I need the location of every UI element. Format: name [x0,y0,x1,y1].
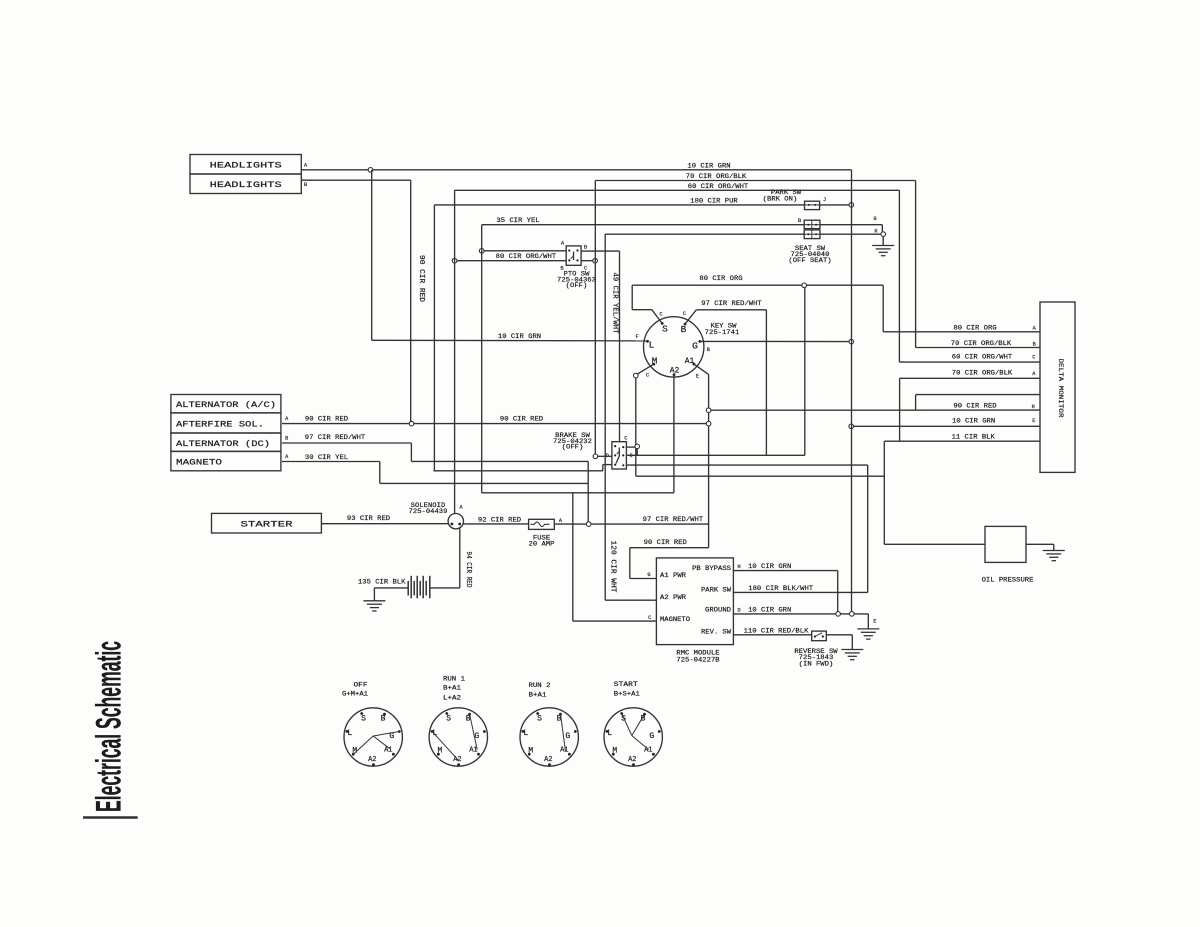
svg-text:C: C [683,311,686,317]
wire rmc A1 jog [629,548,631,579]
wire seat ground stem [882,236,884,245]
svg-text:(OFF): (OFF) [562,444,584,451]
wire seat K line west [605,233,804,235]
svg-text:97 CIR RED/WHT: 97 CIR RED/WHT [643,516,704,523]
wire A2 stem [673,375,675,382]
wire vert blank down [915,395,917,410]
svg-text:110 CIR RED/BLK: 110 CIR RED/BLK [744,627,809,634]
svg-text:E: E [873,618,876,624]
wire monitor A2 70ORGBLK [900,377,1040,379]
wire vert park up [867,465,869,592]
svg-text:PARK SW: PARK SW [701,587,731,594]
wire vert A2mon down [899,378,901,441]
alternator AC box [171,395,281,413]
wire vert magneto link [572,493,574,621]
svg-text:G: G [873,216,876,222]
wire PB bypass [733,570,837,572]
svg-text:OFF: OFF [354,682,368,689]
wire battery ground stem [373,588,375,601]
svg-text:(OFF): (OFF) [566,282,588,289]
wire PTO C east [581,260,593,262]
svg-text:92 CIR RED: 92 CIR RED [478,517,521,524]
svg-text:B: B [707,347,710,353]
svg-text:HEADLIGHTS: HEADLIGHTS [210,181,282,190]
svg-text:70 CIR ORG/BLK: 70 CIR ORG/BLK [952,370,1013,377]
solenoid circle [448,514,463,529]
wire A1 pin [694,364,709,374]
park switch through wire [805,204,820,206]
svg-text:OIL PRESSURE: OIL PRESSURE [982,577,1034,584]
svg-text:L: L [649,339,655,350]
svg-text:AFTERFIRE SOL.: AFTERFIRE SOL. [176,421,264,430]
delta monitor box [1040,302,1075,472]
svg-text:B+S+A1: B+S+A1 [614,691,640,698]
svg-text:M: M [437,747,442,756]
svg-text:(OFF SEAT): (OFF SEAT) [788,257,831,264]
svg-text:70 CIR ORG/BLK: 70 CIR ORG/BLK [686,173,747,180]
svg-text:RUN 2: RUN 2 [529,682,551,689]
wire 80 ORG/WHT upper [484,250,566,252]
svg-text:180 CIR BLK/WHT: 180 CIR BLK/WHT [748,585,813,592]
ground rmc [857,628,879,630]
PTO switch box [566,246,581,265]
svg-text:93 CIR RED: 93 CIR RED [347,515,390,522]
svg-text:60 CIR ORG/WHT: 60 CIR ORG/WHT [952,353,1013,360]
svg-text:10 CIR GRN: 10 CIR GRN [498,333,541,340]
svg-text:A2: A2 [544,756,552,764]
wire vert 35YEL down [481,225,483,493]
wire 90 CIR RED bus [282,423,706,425]
wire brake bottom east [626,464,867,466]
wire rev sw east [826,634,852,636]
svg-text:80 CIR ORG: 80 CIR ORG [953,324,996,331]
wire vert 80ORG to monitor [882,285,884,332]
svg-text:A1: A1 [685,357,695,366]
svg-text:11 CIR BLK: 11 CIR BLK [952,433,995,440]
svg-text:A2: A2 [670,366,680,375]
node 90RED hl circle [409,421,414,426]
svg-text:10 CIR GRN: 10 CIR GRN [748,606,791,613]
alternator DC box [171,433,281,451]
wire 30YEL mid [380,482,588,484]
wire monitor A [883,331,1040,333]
key position RUN 2 circle [520,708,578,766]
wire vert 60ORGWHT to monitor [898,190,900,362]
node gnd circle 1 [836,612,841,617]
svg-text:G: G [692,341,698,352]
wire 10 CIR GRN top [301,169,851,171]
brake switch lever [618,448,620,457]
node 80 ORG/WHT lower circle [452,258,457,263]
svg-text:MAGNETO: MAGNETO [660,616,690,623]
solenoid pins [451,523,454,526]
node M circle [634,373,639,378]
svg-text:10 CIR GRN: 10 CIR GRN [687,162,730,169]
svg-text:90 CIR RED: 90 CIR RED [305,416,348,423]
svg-text:94 CIR RED: 94 CIR RED [464,552,472,588]
svg-text:B: B [584,244,587,250]
wire vert 97 to fuse [587,461,589,521]
svg-text:L: L [523,729,528,738]
wire park sw to ground bus [820,204,852,206]
wire oil pressure right [1026,543,1054,545]
svg-text:B: B [681,324,687,335]
svg-text:S: S [361,714,366,723]
svg-text:90 CIR RED: 90 CIR RED [953,403,996,410]
svg-text:20 AMP: 20 AMP [529,541,555,548]
svg-text:ALTERNATOR (A/C): ALTERNATOR (A/C) [176,401,276,410]
svg-text:MAGNETO: MAGNETO [176,459,222,468]
key switch circle [644,317,704,377]
node headlight A junction [368,168,373,173]
svg-text:A1: A1 [560,747,568,755]
wire fuse out [554,523,586,525]
svg-text:A1: A1 [644,747,652,755]
wire S pin [652,310,662,324]
node brake topC circle [635,444,640,449]
svg-text:G: G [565,732,570,741]
wire 94 CIR RED vertical [459,528,461,588]
wire seat K line east [820,233,881,235]
svg-text:(IN FWD): (IN FWD) [799,661,834,668]
wire rmc ground stem [867,614,869,629]
wire monitor E [854,425,1041,427]
svg-text:49 CIR YEL/WHT: 49 CIR YEL/WHT [611,273,619,334]
wire ground rmc [733,613,868,615]
wire vert 180PUR down [433,205,435,471]
wire vert M down [635,378,637,476]
svg-text:S: S [537,714,542,723]
svg-text:10 CIR GRN: 10 CIR GRN [748,563,791,570]
svg-text:90 CIR RED: 90 CIR RED [500,416,543,423]
svg-text:ALTERNATOR (DC): ALTERNATOR (DC) [176,440,270,449]
wire brake D line [598,455,612,457]
svg-text:B+A1: B+A1 [529,692,547,699]
wire 90 CIR RED rmc top [630,547,709,549]
wire vert 80ORGcircle down [804,288,806,456]
wire 80 ORG/WHT lower [457,260,566,262]
ground battery [363,600,385,602]
ground oil pressure [1043,550,1065,552]
svg-text:G+M+A1: G+M+A1 [342,691,368,698]
svg-text:C: C [659,312,662,318]
seat switch conn 2 [804,230,820,239]
seat conn1 pins [807,224,809,226]
svg-text:B: B [381,714,386,723]
wire monitor C [899,361,1040,363]
node K circle [881,232,886,237]
wire PTO B east [581,250,619,252]
node J circle [849,203,854,208]
wire 93 CIR RED [321,523,448,525]
svg-text:L: L [607,729,612,738]
svg-text:97 CIR RED/WHT: 97 CIR RED/WHT [701,300,762,307]
wire M3 jog [602,465,604,471]
node PTO C circle [593,258,598,263]
svg-text:START: START [614,681,638,688]
node fuse97 circle [586,522,591,527]
wire 80 CIR ORG [632,284,883,286]
svg-text:A1 PWR: A1 PWR [660,572,686,579]
svg-text:C: C [624,436,627,442]
svg-text:180 CIR PUR: 180 CIR PUR [690,197,738,204]
wire 30 CIR YEL left [282,461,380,463]
headlights box B [190,174,301,194]
oil pressure box [985,526,1026,562]
node brake D circle [593,454,598,459]
svg-text:120 CIR WHT: 120 CIR WHT [609,541,617,593]
wire 97 mid [411,460,588,462]
svg-text:M: M [528,747,533,756]
wire vert 60ORG to solenoid [454,190,456,513]
wire vert A2 down [673,382,675,493]
node 80 ORG/WHT upper circle [479,249,484,254]
ground seat switch [872,245,894,247]
node monitor E circle [849,424,854,429]
key position RUN 1 circle [429,708,487,766]
svg-text:HEADLIGHTS: HEADLIGHTS [210,162,282,171]
svg-text:G: G [649,732,654,741]
svg-text:135 CIR BLK: 135 CIR BLK [358,579,406,586]
brake switch pins [614,445,616,447]
wire monitor B [916,347,1040,349]
seat conn2 through wire [804,233,820,235]
svg-text:A2: A2 [368,756,376,764]
svg-text:A2: A2 [628,756,636,764]
wire vert pb down [837,571,839,612]
brake switch box [612,442,627,469]
wire vert A1 down [708,374,710,547]
seat switch conn 1 [804,220,820,228]
svg-text:E: E [1032,418,1035,424]
wire 92 CIR RED [464,523,529,525]
svg-text:STARTER: STARTER [241,521,293,530]
wire vert 70ORGBLK to monitor [915,181,917,348]
wire 10 CIR GRN mid [372,339,648,342]
svg-text:A2: A2 [453,756,461,764]
wire vert 70ORG to brakeD [594,181,596,455]
svg-text:RUN 1: RUN 1 [443,676,465,683]
wire 60 CIR ORG/WHT top [455,189,900,191]
key position START circle [604,708,662,766]
node 90RED end circle [706,421,711,426]
wire rev sw west [733,634,811,636]
key switch pin dots [661,322,664,325]
svg-text:REV. SW: REV. SW [701,629,731,636]
svg-text:H: H [1032,404,1035,410]
wire vert headlightA down [371,170,373,340]
wire vert 11BLK to oil [883,441,885,544]
svg-text:90 CIR RED: 90 CIR RED [417,255,425,302]
svg-text:B+A1: B+A1 [443,685,461,692]
node G ground circle [849,339,854,344]
RMC module box [656,558,733,645]
svg-text:H: H [738,564,741,570]
svg-text:S: S [446,714,451,723]
wire 35 CIR YEL [482,224,805,226]
node 80 ORG circle [802,283,807,288]
wire vert 97 jog [410,443,412,461]
wire rmc A2 [605,599,656,601]
svg-text:C: C [1032,355,1035,361]
wire G pin east [700,340,849,342]
svg-text:S: S [662,323,668,334]
wire vert ground bus 10GRN [851,170,853,612]
wire vert 49 CIR YEL/WHT [604,234,606,600]
svg-text:97 CIR RED/WHT: 97 CIR RED/WHT [305,434,366,441]
key position OFF circle [344,708,402,766]
wire monitor H [711,409,1040,411]
wire battery right [430,587,459,589]
title underline [83,816,138,819]
svg-text:GROUND: GROUND [705,607,731,614]
svg-text:B: B [304,182,307,188]
wire rmc magneto [573,620,657,622]
svg-text:PB BYPASS: PB BYPASS [692,565,731,572]
svg-text:F: F [635,334,638,340]
seat conn1 through wire [804,224,820,226]
svg-text:(BRK ON): (BRK ON) [763,195,798,202]
node monitor H circle [706,408,711,413]
wire 97 CIR RED/WHT left [282,442,411,444]
park switch box [805,201,820,209]
svg-text:B: B [798,218,801,224]
wire 70 CIR ORG/BLK top [595,180,915,182]
wire M7 A2 link [482,492,674,494]
fuse box [529,519,555,529]
svg-text:RMC MODULE: RMC MODULE [676,650,719,657]
svg-text:D: D [738,607,741,613]
wire battery left [374,587,408,589]
afterfire sol box [171,413,281,433]
svg-text:80 CIR ORG/WHT: 80 CIR ORG/WHT [496,253,557,260]
svg-text:G: G [647,572,650,578]
svg-text:DELTA MONITOR: DELTA MONITOR [1057,359,1064,418]
wire 180 CIR PUR [434,204,804,206]
reverse switch box [812,631,827,641]
svg-text:L+A2: L+A2 [443,694,461,701]
svg-text:J: J [823,197,826,203]
wire monitor 11 BLK [884,440,1040,442]
svg-text:80 CIR ORG: 80 CIR ORG [699,275,742,282]
ground reverse sw [841,649,863,651]
wire park sw rmc [733,591,867,593]
node gnd circle 2 [850,612,855,617]
wire brake feed M4 [433,470,602,472]
wire 97 fuse east [591,523,709,525]
svg-text:725-04439: 725-04439 [409,508,448,515]
wire brake topC stem [626,446,635,448]
wire headlights B [301,179,410,181]
wire brake C M1 [626,454,804,456]
magneto box [171,451,281,470]
wire vert B97 down [765,310,767,456]
svg-text:70 CIR ORG/BLK: 70 CIR ORG/BLK [951,340,1012,347]
wire B pin 97 [685,310,696,324]
svg-text:C: C [648,615,651,621]
PTO switch pins [568,249,570,251]
svg-text:Electrical Schematic: Electrical Schematic [90,641,129,812]
svg-text:725-04227B: 725-04227B [676,657,719,664]
headlights box A [190,155,301,175]
wire oil pressure left [884,543,985,545]
fuse element [531,522,550,527]
svg-text:60 CIR ORG/WHT: 60 CIR ORG/WHT [688,183,749,190]
seat conn2 pins [807,233,809,235]
wire M pin [637,364,654,374]
wire seat G east [820,224,882,226]
svg-text:B: B [1033,341,1036,347]
park switch arrows [808,204,810,206]
wire vert 30YEL jog [379,462,381,484]
wire M5 from M vert [636,475,885,477]
svg-text:B: B [285,436,288,442]
wire monitor blank [916,394,1040,396]
svg-text:30 CIR YEL: 30 CIR YEL [305,454,348,461]
starter box [212,513,322,533]
battery symbol [407,581,409,596]
PTO switch lever [573,252,575,261]
svg-text:A2 PWR: A2 PWR [660,594,686,601]
svg-text:10 CIR GRN: 10 CIR GRN [952,418,995,425]
wire vert PTO-B to brake top [619,251,621,442]
svg-text:M: M [612,747,617,756]
svg-text:725-1741: 725-1741 [705,329,740,336]
wire vert headlightB down [410,180,412,421]
svg-text:35 CIR YEL: 35 CIR YEL [496,217,539,224]
reverse switch lever [814,635,816,637]
svg-text:C: C [646,372,649,378]
svg-text:E: E [696,374,699,380]
svg-text:L: L [347,729,352,738]
svg-text:90 CIR RED: 90 CIR RED [644,539,687,546]
